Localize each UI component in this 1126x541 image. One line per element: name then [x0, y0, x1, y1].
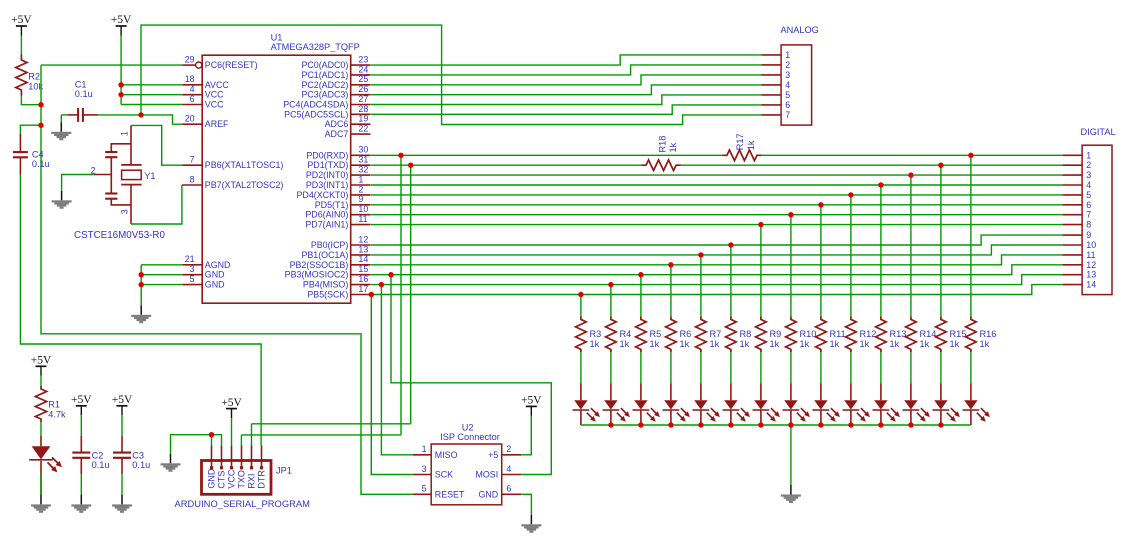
wire PB5 to DIGITAL pin 14 — [371, 285, 1063, 295]
DIGITAL pin 14 stub — [1062, 284, 1082, 286]
svg-text:0.1u: 0.1u — [32, 159, 50, 169]
U1 pin 28 PC5(ADC5SCL) stub — [351, 113, 371, 115]
wire PC3(ADC3) to ANALOG pin 4 — [371, 85, 762, 95]
ANALOG pin 7 stub — [761, 114, 781, 116]
C4 bottom lead — [19, 157, 21, 174]
svg-text:3: 3 — [120, 209, 130, 214]
U1 pin 25 PC2(ADC2) stub — [351, 84, 371, 86]
svg-text:R15: R15 — [950, 329, 967, 339]
wire RESET net: PC6 column down, across to U2 RESET — [41, 65, 413, 494]
svg-text:8: 8 — [1086, 220, 1091, 230]
svg-text:17: 17 — [358, 284, 368, 294]
svg-text:PC2(ADC2): PC2(ADC2) — [301, 80, 348, 90]
U1 pin 13 PB1(OC1A) stub — [351, 254, 371, 256]
wire R5 to LED3 — [640, 352, 642, 383]
svg-text:1k: 1k — [770, 339, 780, 349]
LED D5 (column R7) — [693, 400, 720, 422]
junction bus / LED column 6 — [728, 422, 733, 427]
crystal Y1 top electrode — [121, 164, 141, 166]
svg-text:1: 1 — [785, 50, 790, 60]
wire PB2 to DIGITAL pin 11 — [371, 255, 1063, 265]
junction PB3 row / R5 column — [638, 272, 643, 277]
svg-text:27: 27 — [358, 94, 368, 104]
wire digital row 6 down to R11 — [820, 205, 822, 317]
power +5V symbol feeding C2 — [71, 394, 92, 415]
wire PD1/TXD down to JP1 RXI — [410, 165, 412, 424]
svg-text:10: 10 — [358, 204, 368, 214]
wire RESET net to PC6 pin — [41, 64, 182, 66]
wire PD2 to DIGITAL pin 3 — [371, 174, 1063, 176]
ground symbol at JP1 — [161, 454, 181, 472]
wire PB4 to DIGITAL pin 13 — [371, 275, 1063, 285]
wire R14 to LED12 — [910, 352, 912, 383]
wire R2 bottom to RESET net — [21, 96, 41, 105]
wire LED1 cathode green segment — [40, 473, 42, 495]
wire R16 to LED14 — [970, 352, 972, 383]
U1 pin 29 PC6(RESET) stub with inverting bubble — [182, 64, 195, 66]
resistor R2 10k — [16, 55, 27, 96]
LED7 cathode lead — [760, 411, 762, 426]
svg-text:R2: R2 — [28, 72, 40, 82]
wire PB4 row down to R4 — [610, 285, 612, 317]
wire PB3 to DIGITAL pin 12 — [371, 265, 1063, 275]
svg-text:PD6(AIN0): PD6(AIN0) — [305, 210, 348, 220]
wire digital row 5 down to R12 — [850, 195, 852, 317]
wire PB4/MISO to U2 pin 1 — [381, 285, 412, 455]
U1 pin 32 PD2(INT0) stub — [351, 174, 371, 176]
LED D3 (column R5) — [633, 400, 660, 422]
U1 pin 14 PB2(SSOC1B) stub — [351, 264, 371, 266]
junction bus / LED column 11 — [878, 422, 883, 427]
wire PB5/SCK to U2 pin 3 — [371, 295, 412, 475]
svg-text:9: 9 — [358, 194, 363, 204]
svg-text:GND: GND — [205, 270, 225, 280]
junction bus / LED column 4 — [668, 422, 673, 427]
svg-text:TXO: TXO — [237, 470, 247, 489]
LED D8 (column R10) — [783, 400, 810, 422]
wire R10 to LED8 — [790, 352, 792, 383]
wire PC2(ADC2) to ANALOG pin 3 — [371, 75, 762, 85]
svg-text:AVCC: AVCC — [205, 80, 230, 90]
svg-text:DTR: DTR — [257, 470, 267, 489]
wire PD6 to DIGITAL pin 7 — [371, 214, 1063, 216]
C2 bottom lead — [80, 458, 82, 474]
junction bus / LED column 13 — [938, 422, 943, 427]
U1 pin 4 VCC stub — [182, 94, 202, 96]
wire C1 ground drop — [60, 115, 62, 122]
wire U2 GND to ground — [521, 494, 531, 515]
junction bus / LED column 5 — [698, 422, 703, 427]
wire PD7 to DIGITAL pin 8 — [371, 224, 1063, 226]
C1 right lead — [83, 114, 98, 116]
power +5V symbol feeding C3 — [112, 394, 133, 415]
wire +5V to C2 — [80, 415, 82, 436]
U2 pin 5 RESET stub — [413, 493, 432, 495]
svg-text:CTS: CTS — [217, 471, 227, 489]
wire R4 to LED2 — [610, 352, 612, 383]
JP1 pin DTR stub — [261, 445, 263, 468]
LED11 cathode lead — [880, 411, 882, 426]
svg-text:1k: 1k — [920, 339, 930, 349]
svg-text:R17: R17 — [735, 133, 745, 150]
wire R17 to DIGITAL pin 1 — [762, 154, 1063, 156]
svg-text:DIGITAL: DIGITAL — [1081, 127, 1116, 137]
svg-text:R14: R14 — [920, 329, 937, 339]
svg-text:12: 12 — [358, 234, 368, 244]
crystal Y1 load cap top link — [111, 144, 131, 153]
svg-text:MISO: MISO — [435, 450, 458, 460]
wire RXI to JP1 pin — [251, 424, 253, 446]
U1 pin 22 ADC7 stub — [351, 133, 371, 135]
svg-text:C3: C3 — [132, 450, 144, 460]
junction PD0/TXO drop — [398, 153, 403, 158]
ground symbol at U2 — [521, 515, 541, 533]
crystal Y1 internal capacitor bottom — [105, 194, 117, 199]
U1 pin 23 PC0(ADC0) stub — [351, 64, 371, 66]
ground symbol at C2 — [71, 495, 91, 513]
wire RESET net to C4 top — [20, 125, 41, 134]
svg-text:+5V: +5V — [112, 394, 133, 406]
svg-text:2: 2 — [1086, 160, 1091, 170]
U1 pin 15 PB3(MOSIOC2) stub — [351, 274, 371, 276]
wire R18 to DIGITAL pin 2 — [681, 164, 1063, 166]
U1 pin 21 AGND stub — [182, 264, 202, 266]
wire PB5 row down to R3 — [580, 295, 582, 317]
DIGITAL pin 8 stub — [1062, 224, 1082, 226]
svg-text:16: 16 — [358, 274, 368, 284]
wire ground to JP1 GND/CTS — [171, 435, 222, 454]
wire JP1 GND drop — [211, 435, 213, 446]
ANALOG pin 3 stub — [761, 74, 781, 76]
svg-text:R13: R13 — [890, 329, 907, 339]
svg-text:VCC: VCC — [205, 90, 224, 100]
power +5V symbol feeding JP1 VCC — [221, 397, 242, 418]
wire C3 to ground — [121, 474, 123, 495]
svg-text:GND: GND — [205, 280, 225, 290]
resistor R13 1k — [876, 316, 887, 352]
svg-text:2: 2 — [785, 60, 790, 70]
svg-text:7: 7 — [190, 155, 195, 165]
wire RXI horizontal — [252, 423, 411, 425]
junction PB3/MOSI drop — [388, 272, 393, 277]
svg-text:1k: 1k — [650, 339, 660, 349]
svg-text:7: 7 — [1086, 210, 1091, 220]
resistor R1 4.7k — [35, 386, 46, 422]
U1 pin 31 PD1(TXD) stub — [351, 164, 371, 166]
power +5V symbol feeding AVCC/VCC — [111, 14, 132, 35]
wire R7 to LED5 — [700, 352, 702, 383]
svg-text:PD4(XCKT0): PD4(XCKT0) — [297, 190, 349, 200]
svg-text:1k: 1k — [710, 339, 720, 349]
svg-text:1k: 1k — [860, 339, 870, 349]
svg-text:PB1(OC1A): PB1(OC1A) — [301, 250, 348, 260]
U1 pin 1 PD3(INT1) stub — [351, 184, 371, 186]
LED1 anode lead — [40, 436, 42, 447]
wire bus to ground — [790, 425, 792, 485]
svg-text:10: 10 — [1086, 240, 1096, 250]
DIGITAL pin 3 stub — [1062, 174, 1082, 176]
wire PD3 to DIGITAL pin 4 — [371, 184, 1063, 186]
connector JP1 body — [202, 461, 272, 495]
U1 pin 2 PD4(XCKT0) stub — [351, 194, 371, 196]
resistor R7 1k — [696, 316, 707, 352]
svg-text:+5V: +5V — [71, 394, 92, 406]
svg-text:R10: R10 — [800, 329, 817, 339]
LED12 anode lead — [910, 383, 912, 400]
svg-text:PD1(TXD): PD1(TXD) — [307, 160, 348, 170]
U1 pin 6 VCC stub — [182, 104, 202, 106]
svg-text:3: 3 — [785, 70, 790, 80]
junction PB5/SCK drop — [369, 292, 374, 297]
crystal Y1 pin 2 stub — [94, 174, 112, 176]
svg-text:1k: 1k — [740, 339, 750, 349]
svg-text:R8: R8 — [740, 329, 752, 339]
junction bus / LED column 3 — [638, 422, 643, 427]
svg-text:5: 5 — [785, 90, 790, 100]
svg-text:R18: R18 — [658, 136, 668, 153]
svg-text:32: 32 — [358, 165, 368, 175]
svg-text:1k: 1k — [680, 339, 690, 349]
wire AGND pin 21 — [141, 264, 182, 266]
resistor R10 1k — [786, 316, 797, 352]
wire C4 to JP1 DTR (auto-reset) — [20, 175, 261, 446]
DIGITAL pin 12 stub — [1062, 264, 1082, 266]
svg-text:1k: 1k — [980, 339, 990, 349]
resistor R11 1k — [816, 316, 827, 352]
svg-text:R1: R1 — [48, 400, 60, 410]
svg-text:+5V: +5V — [111, 14, 132, 26]
U1 pin 8 PB7(XTAL2TOSC2) stub — [182, 184, 202, 186]
svg-text:+5V: +5V — [521, 395, 542, 407]
LED1 cathode lead — [580, 411, 582, 426]
junction digital row 1 / R16 column — [968, 153, 973, 158]
wire PC0(ADC0) to ANALOG pin 1 — [371, 55, 762, 65]
svg-text:1k: 1k — [668, 142, 678, 152]
U1 pin 19 ADC6 stub — [351, 123, 371, 125]
svg-text:+5V: +5V — [11, 14, 32, 26]
wire PB1 to DIGITAL pin 10 — [371, 245, 1063, 255]
wire +5V to VCC pin 6 — [121, 104, 182, 106]
wire R15 to LED13 — [940, 352, 942, 383]
wire PD5 to DIGITAL pin 6 — [371, 204, 1063, 206]
LED7 anode lead — [760, 383, 762, 400]
resistor R4 1k — [606, 316, 617, 352]
LED3 anode lead — [640, 383, 642, 400]
junction bus / LED column 10 — [848, 422, 853, 427]
wire R1 to LED1 — [40, 422, 42, 436]
wire C1 to AREF pin 20 — [98, 115, 182, 124]
svg-text:1: 1 — [422, 444, 427, 454]
wire R6 to LED4 — [670, 352, 672, 383]
svg-text:31: 31 — [358, 155, 368, 165]
svg-text:18: 18 — [185, 74, 195, 84]
LED9 anode lead — [820, 383, 822, 400]
crystal Y1 bottom electrode — [121, 184, 141, 186]
LED14 anode lead — [970, 383, 972, 400]
svg-text:15: 15 — [358, 264, 368, 274]
svg-text:Y1: Y1 — [144, 171, 155, 181]
svg-text:VCC: VCC — [205, 100, 224, 110]
U1 pin 5 GND stub — [182, 284, 202, 286]
wire PB3 row down to R5 — [640, 275, 642, 317]
junction PB0 row / R8 column — [728, 242, 733, 247]
junction PB2 row / R6 column — [668, 262, 673, 267]
ANALOG pin 5 stub — [761, 94, 781, 96]
svg-text:PD0(RXD): PD0(RXD) — [306, 150, 348, 160]
wire PD0/RXD down to JP1 TXO — [400, 155, 402, 435]
wire GND pin 5 — [141, 284, 182, 286]
wire digital row 1 down to R16 — [970, 155, 972, 316]
LED D4 (column R6) — [663, 400, 690, 422]
LED9 cathode lead — [820, 411, 822, 426]
svg-text:3: 3 — [422, 464, 427, 474]
junction PB4 row / R4 column — [608, 282, 613, 287]
U2 pin 6 GND stub — [502, 493, 521, 495]
svg-text:RESET: RESET — [435, 489, 465, 499]
crystal Y1 pin 1 lead — [130, 125, 132, 164]
svg-text:30: 30 — [358, 145, 368, 155]
svg-text:22: 22 — [358, 123, 368, 133]
DIGITAL pin 4 stub — [1062, 184, 1082, 186]
wire crystal pin1 to PB6/XTAL1 — [131, 125, 182, 165]
svg-text:14: 14 — [358, 254, 368, 264]
DIGITAL pin 7 stub — [1062, 214, 1082, 216]
LED D13 (column R15) — [933, 400, 960, 422]
DIGITAL pin 10 stub — [1062, 244, 1082, 246]
wire digital row 7 down to R10 — [790, 215, 792, 317]
svg-text:1k: 1k — [620, 339, 630, 349]
JP1 pin TXO stub — [241, 445, 243, 468]
wire +5V rail down to VCC rows — [120, 36, 122, 105]
svg-text:PB4(MISO): PB4(MISO) — [303, 280, 348, 290]
junction digital row 3 / R14 column — [908, 172, 913, 177]
svg-text:1k: 1k — [800, 339, 810, 349]
LED2 anode lead — [610, 383, 612, 400]
C3 bottom lead — [121, 458, 123, 474]
svg-text:PD7(AIN1): PD7(AIN1) — [305, 220, 348, 230]
svg-text:R4: R4 — [620, 329, 632, 339]
wire R3 to LED1 — [580, 352, 582, 383]
wire +5V to R2 — [20, 36, 22, 55]
C3 top lead — [121, 436, 123, 453]
svg-text:C1: C1 — [75, 79, 87, 89]
ground symbol at U1 GND pins — [131, 305, 151, 323]
svg-text:ANALOG: ANALOG — [781, 25, 819, 35]
wire C2 to ground — [80, 474, 82, 495]
svg-text:1k: 1k — [830, 339, 840, 349]
U1 pin 20 AREF stub — [182, 123, 202, 125]
ground symbol at LED bus — [781, 485, 801, 503]
ANALOG pin 2 stub — [761, 64, 781, 66]
svg-text:RXI: RXI — [247, 474, 257, 489]
svg-text:6: 6 — [785, 100, 790, 110]
crystal Y1 mid link — [110, 157, 112, 194]
capacitor C4 0.1u — [13, 152, 28, 157]
svg-text:+5: +5 — [488, 450, 498, 460]
svg-text:PD3(INT1): PD3(INT1) — [306, 180, 348, 190]
svg-text:29: 29 — [185, 55, 195, 65]
junction RESET/C4 — [38, 123, 43, 128]
wire LED cathode ground bus — [581, 424, 971, 426]
svg-text:14: 14 — [1086, 280, 1096, 290]
svg-text:4: 4 — [1086, 180, 1091, 190]
DIGITAL pin 5 stub — [1062, 194, 1082, 196]
LED8 cathode lead — [790, 411, 792, 426]
wire digital row 2 down to R15 — [940, 165, 942, 316]
wire PC5(ADC5) to ANALOG pin 6 — [371, 105, 762, 114]
LED6 cathode lead — [730, 411, 732, 426]
wire +5V to C3 — [121, 415, 123, 436]
svg-text:R9: R9 — [770, 329, 782, 339]
LED4 anode lead — [670, 383, 672, 400]
wire AREF net to ANALOG pin 7 — [141, 25, 761, 124]
LED1 anode lead — [580, 383, 582, 400]
LED D10 (column R12) — [843, 400, 870, 422]
resistor R3 1k — [576, 316, 587, 352]
DIGITAL pin 9 stub — [1062, 234, 1082, 236]
svg-text:PD5(T1): PD5(T1) — [315, 200, 349, 210]
junction R2/RESET net — [38, 102, 43, 107]
svg-text:2: 2 — [506, 444, 511, 454]
junction GND rail pin3 — [139, 272, 144, 277]
svg-text:PB6(XTAL1TOSC1): PB6(XTAL1TOSC1) — [205, 160, 284, 170]
svg-text:25: 25 — [358, 74, 368, 84]
junction PB1 row / R7 column — [698, 252, 703, 257]
U1 pin 18 AVCC stub — [182, 84, 202, 86]
svg-text:26: 26 — [358, 84, 368, 94]
LED D14 (column R16) — [963, 400, 990, 422]
svg-text:JP1: JP1 — [276, 465, 292, 475]
svg-text:R3: R3 — [590, 329, 602, 339]
wire R9 to LED7 — [760, 352, 762, 383]
svg-text:GND: GND — [478, 489, 498, 499]
svg-text:19: 19 — [358, 114, 368, 124]
wire +5V to JP1 VCC — [231, 418, 233, 445]
power +5V symbol feeding R2 — [11, 14, 32, 35]
svg-text:1k: 1k — [746, 140, 756, 150]
resistor R5 1k — [636, 316, 647, 352]
ANALOG pin 4 stub — [761, 84, 781, 86]
wire crystal pin2 to ground — [62, 175, 94, 191]
ANALOG pin 1 stub — [761, 54, 781, 56]
svg-text:3: 3 — [1086, 170, 1091, 180]
DIGITAL pin 1 stub — [1062, 154, 1082, 156]
svg-text:PC6(RESET): PC6(RESET) — [205, 60, 258, 70]
wire PD0/RXD to R17 — [371, 154, 722, 156]
svg-text:ADC6: ADC6 — [325, 119, 349, 129]
junction digital row 5 / R12 column — [848, 192, 853, 197]
junction bus / LED column 12 — [908, 422, 913, 427]
svg-text:U2: U2 — [462, 422, 474, 432]
svg-text:VCC: VCC — [227, 469, 237, 489]
svg-text:ARDUINO_SERIAL_PROGRAM: ARDUINO_SERIAL_PROGRAM — [175, 498, 311, 509]
junction digital row 7 / R10 column — [788, 212, 793, 217]
U1 pin 10 PD6(AIN0) stub — [351, 214, 371, 216]
crystal Y1 internal capacitor top — [105, 152, 117, 157]
svg-text:21: 21 — [185, 254, 195, 264]
svg-text:13: 13 — [358, 244, 368, 254]
U2 pin 2 +5 stub — [502, 454, 521, 456]
wire U2 +5 to +5V symbol — [521, 416, 531, 455]
svg-text:24: 24 — [358, 64, 368, 74]
U1 pin 24 PC1(ADC1) stub — [351, 74, 371, 76]
ground symbol at C1 — [51, 122, 71, 140]
resistor R17 1k — [722, 150, 762, 161]
svg-text:PC1(ADC1): PC1(ADC1) — [301, 70, 348, 80]
junction digital row 2 / R15 column — [938, 163, 943, 168]
svg-text:23: 23 — [358, 55, 368, 65]
resistor R8 1k — [726, 316, 737, 352]
